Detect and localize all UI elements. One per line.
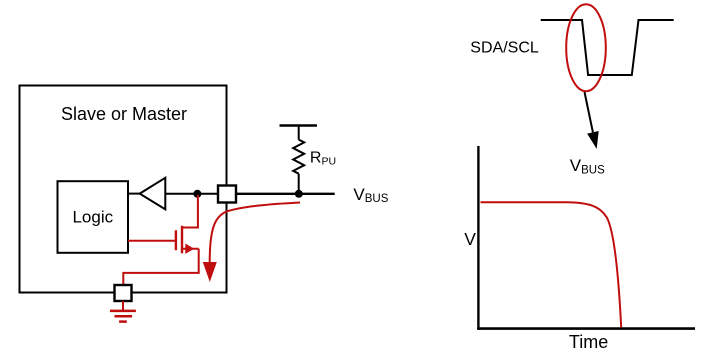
- current flow arrowhead (red): [203, 262, 217, 282]
- logic block: [58, 181, 129, 253]
- supply rail: [280, 124, 318, 126]
- VBUS discharge curve (red): [481, 202, 622, 327]
- svg-text:SDA/SCL: SDA/SCL: [470, 40, 539, 57]
- wire: bus line VBUS: [236, 193, 335, 195]
- wire: source to ground pin (red): [123, 249, 198, 285]
- transistor Q1 channel bar: [181, 226, 183, 254]
- svg-text:RPU: RPU: [310, 149, 336, 167]
- svg-text:VBUS: VBUS: [353, 185, 388, 205]
- node junction dot (buffer/drain): [193, 190, 201, 198]
- svg-text:Time: Time: [569, 332, 608, 352]
- svg-text:VBUS: VBUS: [570, 156, 605, 177]
- pin square P2 on bottom edge: [115, 285, 132, 301]
- graph y-axis: [477, 146, 479, 330]
- wire: buffer to pin: [165, 193, 218, 195]
- pin square P1 on right edge: [218, 186, 236, 203]
- arrow shaft to VBUS graph: [585, 92, 593, 132]
- node junction dot (resistor/bus): [295, 190, 303, 198]
- enclosure box U1: Slave or Master: [20, 86, 227, 293]
- transistor Q1 drain wire (red): [182, 195, 198, 228]
- transistor Q1 source lead: [182, 248, 199, 250]
- transistor Q1 gate bar: [175, 230, 177, 250]
- arrowhead to VBUS graph: [587, 131, 599, 149]
- ground bar 1: [110, 310, 136, 313]
- input buffer A1 (triangle): [140, 178, 166, 210]
- svg-text:V: V: [464, 229, 476, 249]
- ground wire (red): [122, 301, 124, 311]
- graph x-axis: [477, 327, 695, 330]
- ground bar 3: [119, 320, 127, 323]
- svg-text:Slave or Master: Slave or Master: [61, 104, 187, 124]
- waveform trace SDA/SCL: [541, 20, 674, 75]
- wire: rail to resistor: [298, 126, 300, 140]
- highlight ellipse (red) around falling edge: [566, 4, 606, 91]
- wire: logic to buffer input: [128, 193, 140, 195]
- current flow arrow curve (red): [210, 203, 300, 263]
- wire: resistor to bus node: [298, 174, 300, 194]
- ground bar 2: [115, 315, 133, 318]
- resistor RPU (zigzag): [293, 140, 304, 174]
- transistor Q1 gate wire from logic: [128, 240, 176, 242]
- svg-text:Logic: Logic: [72, 208, 113, 227]
- transistor Q1 source arrow: [185, 244, 194, 254]
